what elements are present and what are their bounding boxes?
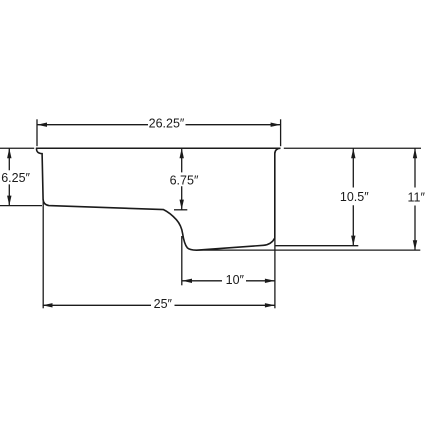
arrowhead 10 left [182,279,192,283]
dimension line 6.25 [8,148,10,205]
svg-text:25″: 25″ [154,297,173,311]
extension line 10.5 bottom [275,245,358,247]
extension line rim left [0,147,34,149]
arrowhead 6.25 down [7,196,11,206]
tick 6.75 bottom [174,209,187,211]
arrowhead 11 down [413,240,417,250]
extension line 10 left [181,236,183,285]
arrowhead 6.25 up [7,148,11,158]
arrowhead 11 up [413,148,417,158]
arrowhead 10.5 down [351,236,355,246]
extension line rim right [284,147,421,149]
extension line 26.25 right [280,119,282,146]
arrowhead 6.75 down [180,200,184,210]
arrowhead 6.75 up [180,148,184,158]
extension line left wall down [42,199,44,308]
arrowhead 26.25 right [271,123,281,127]
arrowhead 10.5 up [351,148,355,158]
arrowhead 26.25 left [37,123,47,127]
svg-text:6.25″: 6.25″ [1,171,30,185]
dimension line 26.25 [37,124,281,126]
dimension line 11 [414,148,416,250]
svg-text:10″: 10″ [226,273,245,287]
arrowhead 25 left [43,303,53,307]
svg-text:26.25″: 26.25″ [149,117,185,131]
arrowhead 10 right [265,279,275,283]
dimension line 6.75 [181,148,183,209]
dimension line 10.5 [352,148,354,245]
dimension line 25 [43,304,275,306]
extension line 11 bottom [197,249,420,251]
pan outline [37,148,281,250]
dimension line 10 [182,280,275,282]
extension line 26.25 left [36,119,38,146]
svg-text:10.5″: 10.5″ [340,190,369,204]
svg-text:11″: 11″ [407,190,425,204]
extension line right wall down [274,238,276,308]
extension line 6.25 bottom [0,205,42,207]
arrowhead 25 right [265,303,275,307]
svg-text:6.75″: 6.75″ [170,173,199,187]
